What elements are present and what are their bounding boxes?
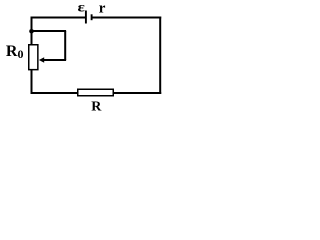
wire bottom-right segment: [114, 92, 162, 94]
wire left side upper: [31, 17, 33, 46]
svg-text:ε: ε: [78, 0, 86, 15]
wiper arrowhead: [39, 57, 44, 63]
wire top-right segment: [92, 17, 162, 19]
svg-text:r: r: [99, 1, 106, 17]
svg-text:0: 0: [18, 47, 24, 61]
wire wiper bottom segment: [44, 59, 67, 61]
resistor R0 (rheostat body): [29, 45, 38, 70]
battery long plate (cell ε): [85, 11, 87, 24]
wire right side: [159, 17, 161, 95]
battery short plate (cell ε): [91, 14, 93, 20]
wire bottom-left segment: [31, 92, 79, 94]
wire top-left segment: [31, 17, 86, 19]
wire wiper right segment: [64, 31, 66, 60]
wire wiper top segment: [32, 30, 67, 32]
svg-text:R: R: [91, 100, 102, 115]
wire left side lower: [31, 70, 33, 95]
resistor R: [78, 89, 114, 96]
svg-text:R: R: [6, 43, 18, 60]
node junction dot: [29, 29, 34, 34]
